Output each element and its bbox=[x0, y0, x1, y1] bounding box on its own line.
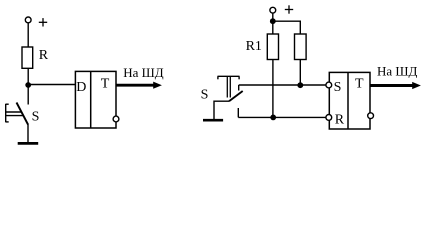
node A (junction dot) bbox=[25, 82, 31, 88]
switch S (pushbutton SPDT, right circuit) bbox=[214, 76, 243, 119]
wire: node B to left resistor bbox=[272, 21, 274, 34]
svg-text:S: S bbox=[32, 109, 40, 124]
switch S (pushbutton, left circuit) bbox=[6, 103, 28, 125]
label + (left supply) bbox=[39, 18, 47, 26]
svg-text:R: R bbox=[335, 113, 345, 128]
wire: lower (switch to R input) bbox=[238, 116, 325, 118]
resistor R1b (right) bbox=[295, 34, 307, 60]
svg-text:S: S bbox=[201, 87, 209, 102]
wire: right resistor to node D bbox=[299, 60, 301, 86]
ground (right circuit) bbox=[203, 119, 223, 122]
node C (junction on R wire) bbox=[270, 115, 276, 121]
D latch U1 divider bbox=[90, 71, 92, 128]
inverted output bubble (right trigger) bbox=[368, 113, 374, 119]
inverted output bubble (left trigger) bbox=[113, 116, 119, 122]
RS trigger U2 (box) bbox=[329, 72, 370, 129]
node D (junction on S wire) bbox=[297, 82, 303, 88]
wire: switch to ground bbox=[27, 124, 29, 143]
RS trigger U2 divider bbox=[347, 72, 349, 129]
svg-text:S: S bbox=[334, 80, 342, 95]
output arrow (right, to data bus) bbox=[370, 82, 421, 89]
S input bubble bbox=[326, 82, 332, 88]
wire: node A to D input bbox=[28, 84, 75, 86]
svg-text:T: T bbox=[355, 76, 364, 91]
D latch U1 (box) bbox=[75, 71, 116, 128]
wire: node B to right resistor branch bbox=[273, 21, 301, 34]
resistor R1a (left) bbox=[267, 34, 278, 60]
node B (junction dot) bbox=[270, 18, 276, 24]
svg-text:D: D bbox=[76, 80, 86, 95]
ground (left circuit) bbox=[18, 142, 39, 145]
label + (right supply) bbox=[285, 5, 293, 13]
wire: left resistor to node C bbox=[272, 60, 274, 118]
svg-text:На ШД: На ШД bbox=[377, 64, 418, 79]
R input bubble bbox=[326, 115, 332, 121]
wire: terminal to node B bbox=[272, 13, 274, 21]
svg-text:R1: R1 bbox=[246, 39, 262, 54]
resistor R bbox=[22, 47, 33, 68]
wire: resistor R to node A bbox=[27, 68, 29, 104]
wire: upper (switch to S input) bbox=[239, 84, 326, 86]
svg-text:R: R bbox=[39, 48, 49, 63]
wire: terminal to resistor R bbox=[27, 23, 29, 47]
output arrow (left, to data bus) bbox=[116, 82, 162, 89]
terminal X2 (+ supply, right circuit) bbox=[270, 7, 276, 13]
terminal X1 (+ supply, left circuit) bbox=[25, 17, 31, 23]
svg-text:T: T bbox=[101, 76, 110, 91]
svg-text:На ШД: На ШД bbox=[123, 65, 164, 80]
